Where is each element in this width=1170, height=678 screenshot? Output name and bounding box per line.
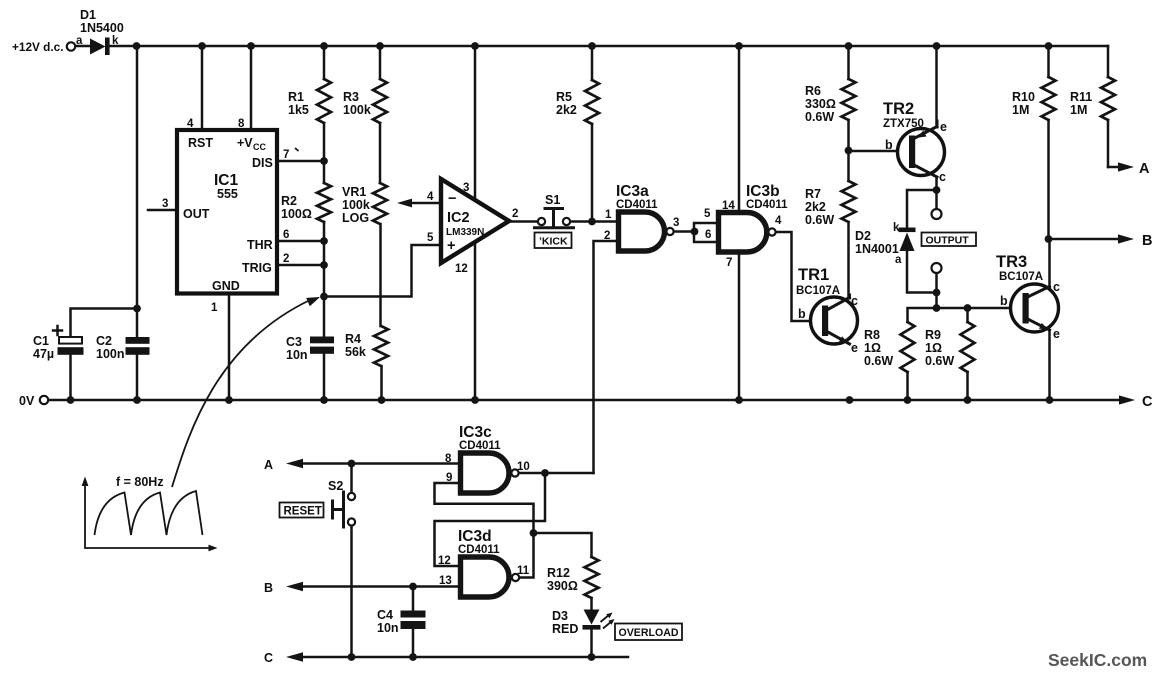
wire lower output terminal column [935, 273, 938, 308]
node C arrow right on 0V rail [1119, 395, 1135, 404]
svg-text:330Ω: 330Ω [805, 97, 836, 111]
svg-text:c: c [851, 294, 858, 308]
wire R10 column to node B [1047, 46, 1050, 239]
resistor R12 390ohm [585, 557, 599, 598]
svg-text:b: b [1000, 294, 1008, 308]
wire IC3b output pin4 to TR1 base [776, 232, 823, 321]
wire IC1 pin6 THR [277, 240, 324, 243]
svg-text:b: b [798, 307, 806, 321]
svg-text:0.6W: 0.6W [805, 213, 834, 227]
svg-text:3: 3 [162, 198, 168, 210]
svg-text:BC107A: BC107A [999, 271, 1043, 283]
svg-text:S2: S2 [328, 479, 343, 493]
terminal OUTPUT lower [932, 263, 942, 273]
node TR2 collector [933, 186, 941, 194]
resistor R4 56k [374, 326, 388, 366]
resistor R7 2k2 [842, 181, 856, 222]
svg-text:R3: R3 [343, 90, 359, 104]
wire R3 VR1 R4 column [380, 46, 382, 400]
svg-text:12: 12 [455, 263, 468, 275]
svg-text:IC3c: IC3c [459, 424, 492, 441]
svg-text:A: A [264, 458, 273, 472]
svg-text:’KICK: ’KICK [539, 236, 568, 248]
svg-text:LM339N: LM339N [446, 227, 484, 238]
svg-text:D2: D2 [855, 229, 871, 243]
svg-text:CD4011: CD4011 [458, 544, 500, 556]
svg-text:D1: D1 [80, 8, 96, 22]
wire IC3b pin7 ground [738, 252, 741, 400]
svg-text:0.6W: 0.6W [805, 110, 834, 124]
wire R5 column [591, 46, 594, 222]
svg-text:+: + [447, 238, 455, 254]
svg-text:11: 11 [517, 565, 530, 577]
svg-text:R7: R7 [805, 187, 821, 201]
svg-text:8: 8 [445, 453, 452, 465]
NAND gate IC3a CD4011 [619, 212, 674, 251]
wire R1 R2 C3 column [323, 46, 326, 400]
wire S2 column lower to line C [350, 526, 353, 658]
node C-D3 [588, 653, 596, 661]
labels IC2 [427, 182, 518, 275]
transistor TR3 BC107A [1011, 284, 1059, 332]
svg-text:SeekIC.com: SeekIC.com [1048, 650, 1147, 670]
svg-text:R5: R5 [556, 90, 572, 104]
svg-text:1Ω: 1Ω [925, 341, 942, 355]
svg-text:R4: R4 [345, 332, 361, 346]
wire S1 to IC3a pin1 [570, 220, 619, 223]
node S1-R5-pin1 [588, 218, 596, 226]
labels R1 R3 [288, 90, 371, 117]
switch S2 RESET pushbutton [333, 492, 356, 527]
wire IC1 pin8 [250, 46, 253, 130]
diode D1 1N5400 [90, 38, 110, 56]
wire IC2 output pin2 to S1 [510, 220, 538, 223]
resistor R9 1ohm [961, 322, 975, 372]
labels C1 C2 [33, 334, 125, 361]
node IC3d out latch [530, 529, 538, 537]
LED D3 RED [583, 610, 615, 630]
svg-text:C4: C4 [377, 608, 393, 622]
wire IC1 pin3 OUT stub [148, 209, 177, 212]
wire IC3c output pin10 [519, 472, 594, 475]
svg-text:B: B [1142, 233, 1152, 249]
labels D3 [552, 609, 578, 636]
resistor R6 330ohm [842, 79, 856, 120]
svg-text:4: 4 [775, 215, 782, 227]
svg-text:1N5400: 1N5400 [80, 21, 124, 35]
svg-text:a: a [895, 254, 902, 266]
svg-text:2: 2 [604, 230, 610, 242]
svg-text:56k: 56k [345, 345, 366, 359]
svg-text:S1: S1 [545, 193, 560, 207]
labels C3 R4 [286, 332, 366, 362]
svg-text:7: 7 [283, 149, 289, 161]
wire R8 R9 TR3 base rail [908, 308, 1024, 400]
wire R11 to A arrow right [1108, 162, 1134, 171]
wire D3 cathode to line C [590, 630, 593, 658]
resistor R2 100ohm [317, 183, 331, 222]
terminal 0V [40, 396, 48, 404]
svg-text:+12V d.c.: +12V d.c. [12, 40, 63, 54]
transistor TR2 ZTX750 [898, 121, 945, 177]
node R9 rail [964, 304, 972, 312]
svg-text:4: 4 [427, 191, 434, 203]
svg-text:555: 555 [217, 187, 238, 201]
svg-text:100Ω: 100Ω [281, 207, 312, 221]
svg-text:10n: 10n [377, 621, 399, 635]
label f = 80Hz [116, 475, 164, 489]
labels R5 [556, 90, 577, 117]
waveform sketch axes [82, 477, 218, 552]
wire R6-R7 node to TR2 base [849, 150, 910, 153]
wire S2 column upper [350, 464, 353, 494]
wire R11 column [1107, 46, 1110, 167]
terminal OUTPUT upper [932, 209, 942, 219]
svg-text:c: c [1053, 280, 1060, 294]
svg-text:c: c [939, 170, 946, 184]
svg-text:6: 6 [283, 229, 289, 241]
svg-text:13: 13 [439, 575, 452, 587]
svg-text:C3: C3 [286, 335, 302, 349]
watermark SeekIC.com [1048, 650, 1147, 670]
svg-text:D3: D3 [552, 609, 568, 623]
label S1 [545, 193, 560, 207]
diode D2 1N4001 [899, 228, 916, 252]
svg-text:1Ω: 1Ω [864, 341, 881, 355]
svg-text:0.6W: 0.6W [925, 354, 954, 368]
resistor R10 1M [1042, 77, 1056, 120]
svg-text:CC: CC [253, 142, 266, 152]
labels R2 VR1 [281, 185, 370, 225]
junction dots 0V rail [67, 396, 1054, 404]
svg-text:R2: R2 [281, 194, 297, 208]
resistor R1 1k5 [317, 79, 331, 123]
svg-text:e: e [940, 120, 947, 134]
svg-text:14: 14 [722, 200, 735, 212]
svg-text:12: 12 [438, 555, 451, 567]
svg-text:TR1: TR1 [798, 266, 829, 284]
NAND gate IC3c CD4011 [461, 453, 519, 493]
NAND gate IC3d CD4011 [461, 557, 520, 597]
label box KICK [535, 233, 572, 249]
svg-text:DIS: DIS [252, 156, 273, 170]
label +12V d.c. [12, 40, 63, 54]
NAND gate IC3b CD4011 [719, 213, 776, 253]
svg-text:k: k [893, 222, 900, 234]
wire IC2 supply column pins 3 and 12 [474, 46, 477, 400]
svg-text:C2: C2 [96, 334, 112, 348]
IC1 555 body [177, 130, 277, 294]
wire D2 anode to lower output node [907, 251, 937, 293]
svg-text:IC3a: IC3a [616, 183, 649, 200]
label 0V [19, 394, 35, 408]
labels R10 R11 [1012, 90, 1092, 117]
svg-text:3: 3 [463, 182, 469, 194]
capacitor C1 47u [53, 326, 84, 355]
wire IC3d pin12 feedback from IC3c output [435, 473, 546, 566]
node C-S2 [348, 653, 356, 661]
svg-text:1: 1 [605, 209, 612, 221]
svg-text:f = 80Hz: f = 80Hz [116, 475, 164, 489]
svg-text:1M: 1M [1070, 103, 1087, 117]
wire 0V bottom rail [49, 399, 1121, 402]
svg-text:8: 8 [238, 118, 245, 130]
wire latch output to R12 [534, 533, 592, 557]
svg-text:LOG: LOG [342, 211, 369, 225]
svg-text:RESET: RESET [284, 506, 322, 518]
potentiometer VR1 100k LOG [373, 183, 387, 224]
transistor TR1 BC107A [811, 295, 858, 344]
svg-text:ZTX750: ZTX750 [883, 118, 924, 130]
svg-text:A: A [1139, 161, 1150, 177]
terminal +12V input [67, 42, 75, 50]
node C-C4 [409, 653, 417, 661]
node THR [320, 237, 328, 245]
node R8 rail [933, 304, 941, 312]
svg-text:5: 5 [704, 208, 711, 220]
resistor R5 2k2 [585, 80, 599, 124]
wire C2 column from rail [136, 46, 139, 400]
svg-text:e: e [851, 341, 858, 355]
junction dots top rail [133, 42, 1053, 50]
svg-text:e: e [1053, 327, 1060, 341]
svg-text:B: B [264, 581, 273, 595]
label S2 [328, 479, 343, 493]
svg-text:10n: 10n [286, 348, 308, 362]
node D2 anode output [933, 289, 941, 297]
svg-text:100k: 100k [342, 198, 370, 212]
wire IC1 pin1 GND [228, 294, 231, 401]
svg-text:100k: 100k [343, 103, 371, 117]
wire TR3 collector up [1048, 239, 1051, 287]
label D1 1N5400 [76, 8, 124, 47]
svg-text:RED: RED [552, 622, 578, 636]
wire IC3a output pin3 [674, 230, 696, 233]
svg-text:THR: THR [247, 238, 273, 252]
labels IC3b [704, 183, 788, 269]
labels R12 [547, 566, 578, 593]
svg-text:0V: 0V [19, 394, 35, 408]
wire C1 top branch [71, 309, 138, 401]
labels IC3d [438, 528, 530, 587]
node DIS [320, 157, 328, 165]
wire IC3c pin9 feedback from IC3d output [435, 483, 534, 533]
wire TR2 emitter to rail [935, 46, 938, 127]
wire TR2 collector down [935, 177, 938, 209]
capacitor C4 10n [401, 611, 426, 630]
wire node B arrow right [1049, 234, 1135, 243]
wire IC1 pin7 DIS [277, 160, 324, 163]
svg-text:47µ: 47µ [33, 347, 54, 361]
wire TR3 emitter down [1048, 330, 1051, 400]
svg-text:GND: GND [212, 279, 240, 293]
svg-text:3: 3 [673, 217, 679, 229]
wire IC3a pin2 to latch node [594, 241, 619, 473]
svg-text:OUTPUT: OUTPUT [926, 235, 970, 247]
labels R6 R7 [805, 84, 836, 227]
labels IC3c [445, 424, 530, 484]
labels IC1 pins outside [162, 118, 299, 314]
label box RESET [280, 503, 324, 518]
wire IC1 pin4 [201, 46, 204, 130]
svg-text:2: 2 [283, 253, 289, 265]
svg-text:C: C [264, 651, 273, 665]
svg-text:2k2: 2k2 [556, 103, 577, 117]
svg-text:CD4011: CD4011 [459, 440, 501, 452]
svg-text:R1: R1 [288, 90, 304, 104]
svg-text:IC3d: IC3d [458, 528, 492, 545]
svg-text:R6: R6 [805, 84, 821, 98]
labels C4 [377, 608, 399, 635]
node B [1045, 235, 1053, 243]
svg-text:R9: R9 [925, 328, 941, 342]
svg-text:1N4001: 1N4001 [855, 242, 899, 256]
node B-C4 [409, 583, 417, 591]
svg-text:CD4011: CD4011 [616, 199, 658, 211]
op-amp comparator IC2 LM339N [441, 179, 509, 263]
svg-text:CD4011: CD4011 [746, 199, 788, 211]
svg-text:7: 7 [726, 257, 732, 269]
label box OVERLOAD [615, 624, 682, 641]
node C1-C2 [133, 305, 141, 313]
svg-text:−: − [448, 191, 456, 207]
svg-text:TR3: TR3 [996, 253, 1027, 271]
wire IC3b tied inputs pins 5 6 [694, 223, 719, 242]
svg-text:a: a [76, 35, 83, 47]
wire node TRIG-C3 to IC2 pin5 [324, 245, 441, 297]
labels D2 [855, 222, 902, 266]
svg-text:RST: RST [188, 136, 213, 150]
wire C4 leads [412, 587, 415, 658]
labels TR1 [796, 266, 858, 355]
svg-text:TRIG: TRIG [242, 261, 272, 275]
svg-text:100n: 100n [96, 347, 125, 361]
labels IC1 inside [183, 136, 273, 293]
label box OUTPUT [922, 233, 977, 247]
svg-text:1M: 1M [1012, 103, 1029, 117]
labels R8 R9 [864, 328, 954, 368]
node R6-R7-TR2 base [845, 147, 853, 155]
svg-text:VR1: VR1 [342, 185, 366, 199]
svg-text:4: 4 [187, 118, 194, 130]
labels A B C left [264, 458, 273, 665]
labels IC3a [604, 183, 679, 242]
node TRIG [320, 261, 328, 269]
wire R12 to D3 [590, 598, 593, 610]
resistor R11 1M [1101, 77, 1115, 120]
wire IC2 pin4 from VR1 wiper [397, 199, 441, 208]
wire latch line C [286, 652, 628, 662]
node C3 sawtooth [320, 293, 328, 301]
svg-text:1: 1 [211, 302, 218, 314]
resistor R8 1ohm [901, 322, 915, 372]
node IC3a out [691, 228, 699, 236]
svg-text:IC3b: IC3b [746, 183, 780, 200]
wire IC3b pin14 supply [738, 46, 741, 213]
capacitor C3 10n [310, 337, 334, 354]
node A-S2 [348, 460, 356, 468]
svg-text:IC2: IC2 [447, 210, 470, 226]
wire output node to D2 cathode [907, 190, 937, 228]
svg-text:2k2: 2k2 [805, 200, 826, 214]
svg-text:C1: C1 [33, 334, 49, 348]
svg-text:1k5: 1k5 [288, 103, 309, 117]
svg-text:10: 10 [517, 461, 530, 473]
svg-text:390Ω: 390Ω [547, 579, 578, 593]
wire +12V supply top rail [75, 45, 1108, 48]
node IC3c out latch [541, 469, 549, 477]
svg-text:TR2: TR2 [883, 100, 914, 118]
wire latch line A [286, 459, 461, 469]
wire IC1 pin2 TRIG [277, 264, 324, 267]
svg-text:2: 2 [512, 208, 518, 220]
svg-text:OVERLOAD: OVERLOAD [619, 627, 679, 639]
svg-text:R10: R10 [1012, 90, 1035, 104]
svg-text:6: 6 [705, 229, 711, 241]
svg-text:R12: R12 [547, 566, 570, 580]
wire R6 R7 column [847, 46, 850, 297]
resistor R3 100k [373, 79, 387, 123]
svg-text:R8: R8 [864, 328, 880, 342]
labels TR3 [996, 253, 1060, 341]
annotation curved arrow to TRIG node [172, 297, 320, 487]
switch S1 KICK pushbutton [535, 209, 574, 228]
capacitor C2 100n [126, 337, 150, 355]
svg-text:OUT: OUT [183, 207, 210, 221]
svg-text:R11: R11 [1070, 90, 1092, 104]
svg-text:5: 5 [427, 232, 434, 244]
svg-text:C: C [1142, 394, 1153, 410]
svg-text:+V: +V [237, 136, 253, 150]
labels A B C right [1139, 161, 1153, 410]
svg-text:BC107A: BC107A [796, 285, 840, 297]
svg-text:9: 9 [446, 472, 452, 484]
waveform sawtooth curve f=80Hz [95, 491, 203, 535]
wire IC3d output pin11 [519, 533, 534, 578]
svg-text:k: k [112, 35, 119, 47]
labels TR2 [883, 100, 947, 184]
wire latch line B [286, 582, 461, 592]
svg-text:0.6W: 0.6W [864, 354, 893, 368]
svg-text:b: b [885, 138, 893, 152]
